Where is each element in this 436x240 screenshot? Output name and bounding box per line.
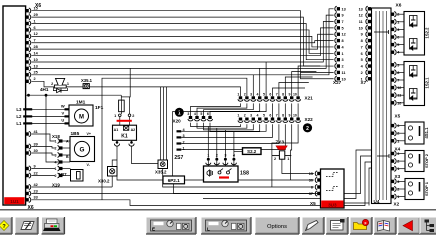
toolbar help button bbox=[0, 217, 12, 234]
switch 1S2.1 bbox=[404, 62, 430, 106]
svg-text:1M1: 1M1 bbox=[76, 100, 86, 106]
switch label S2.2 bbox=[243, 148, 262, 155]
svg-text:5: 5 bbox=[361, 58, 363, 62]
svg-text:Options: Options bbox=[267, 224, 287, 230]
generator 1B5 bbox=[66, 131, 95, 167]
test tap upper in U4 bbox=[374, 30, 389, 34]
svg-text:STOP 2: STOP 2 bbox=[424, 153, 429, 168]
svg-text:1: 1 bbox=[397, 20, 399, 24]
wire triple drop to X35.2 bbox=[161, 87, 167, 160]
svg-text:6: 6 bbox=[269, 92, 271, 96]
svg-text:A2: A2 bbox=[131, 128, 136, 132]
wire 23 long bbox=[32, 156, 387, 194]
svg-text:G: G bbox=[80, 147, 85, 154]
connector X6 pins 42,23,33 bbox=[26, 183, 38, 203]
svg-text:8: 8 bbox=[342, 39, 344, 43]
svg-text:7: 7 bbox=[276, 114, 278, 118]
svg-text:6: 6 bbox=[34, 26, 36, 30]
svg-text:2: 2 bbox=[342, 65, 344, 69]
connector X27 bbox=[333, 6, 346, 85]
toolbar tree button bbox=[420, 217, 436, 234]
svg-text:X6: X6 bbox=[396, 3, 402, 9]
wire X35.1 to X21 pin1 bbox=[89, 87, 240, 96]
marker circled 1 bbox=[175, 108, 184, 117]
svg-text:28: 28 bbox=[34, 45, 38, 49]
toolbar meter button L bbox=[201, 217, 251, 234]
svg-text:2: 2 bbox=[55, 174, 57, 178]
wire X21 to X22 direct bbox=[273, 103, 299, 117]
svg-text:X3: X3 bbox=[395, 174, 401, 179]
svg-text:9: 9 bbox=[289, 114, 291, 118]
svg-text:L1: L1 bbox=[16, 121, 22, 126]
svg-text:E: E bbox=[152, 227, 155, 232]
svg-text:5: 5 bbox=[342, 26, 344, 30]
svg-text:7: 7 bbox=[34, 39, 36, 43]
connector X20 bbox=[173, 112, 213, 123]
toolbar document button bbox=[326, 217, 348, 234]
svg-text:12: 12 bbox=[342, 33, 346, 37]
svg-text:1: 1 bbox=[114, 114, 116, 118]
svg-text:F: F bbox=[364, 221, 366, 225]
control 6P2.1 bbox=[163, 176, 185, 184]
wire X35.2 to pin6 bbox=[163, 169, 314, 188]
svg-text:6: 6 bbox=[269, 114, 271, 118]
svg-text:1S2.2: 1S2.2 bbox=[425, 27, 430, 39]
svg-text:3: 3 bbox=[55, 153, 57, 157]
svg-text:9: 9 bbox=[342, 14, 344, 18]
svg-text:1: 1 bbox=[237, 92, 239, 96]
svg-text:X35.1: X35.1 bbox=[81, 78, 93, 83]
label X3 right bbox=[395, 174, 401, 179]
svg-text:3: 3 bbox=[397, 180, 399, 184]
label X4 right bbox=[395, 147, 401, 152]
svg-text:10: 10 bbox=[359, 26, 363, 30]
wire X18 pin4 feed bbox=[46, 95, 63, 162]
connector X6 right pins lower bbox=[391, 62, 404, 105]
svg-text:3: 3 bbox=[187, 112, 189, 116]
switch STOP 1 bbox=[405, 179, 429, 200]
svg-text:8: 8 bbox=[397, 71, 399, 75]
svg-text:1: 1 bbox=[287, 157, 289, 161]
svg-text:11: 11 bbox=[342, 71, 346, 75]
svg-text:2: 2 bbox=[216, 153, 218, 157]
connector X6 right pins bbox=[391, 12, 404, 55]
svg-text:11: 11 bbox=[359, 20, 363, 24]
svg-text:1: 1 bbox=[67, 82, 69, 86]
svg-text:2: 2 bbox=[132, 114, 134, 118]
terminal L2 bbox=[16, 114, 64, 119]
svg-text:30: 30 bbox=[34, 149, 38, 153]
terminal L1 bbox=[16, 121, 64, 126]
svg-text:4: 4 bbox=[257, 92, 259, 96]
svg-text:1: 1 bbox=[55, 139, 57, 143]
svg-text:12: 12 bbox=[34, 32, 38, 36]
svg-text:3: 3 bbox=[342, 58, 344, 62]
svg-text:8: 8 bbox=[282, 92, 284, 96]
svg-text:X20: X20 bbox=[173, 118, 182, 123]
svg-text:6: 6 bbox=[207, 112, 209, 116]
connector X19 bbox=[32, 166, 71, 187]
label X2 right bbox=[394, 202, 400, 207]
svg-text:1: 1 bbox=[397, 139, 399, 143]
fuse 1F1 bbox=[95, 69, 134, 126]
svg-text:10: 10 bbox=[34, 58, 38, 62]
svg-text:3: 3 bbox=[250, 114, 252, 118]
svg-text:2: 2 bbox=[397, 188, 399, 192]
svg-text:1: 1 bbox=[55, 167, 57, 171]
connector X6 pins 15,29,1,6,12,7,28,14,10,13,25 bbox=[26, 7, 39, 78]
svg-text:29: 29 bbox=[34, 13, 38, 17]
switch 1S2.2 bbox=[404, 12, 430, 56]
wire X22 to 7Y3 bbox=[272, 124, 298, 155]
wire frame left loop bbox=[102, 78, 247, 200]
svg-text:1U1: 1U1 bbox=[10, 199, 19, 204]
svg-text:5: 5 bbox=[263, 114, 265, 118]
svg-text:12: 12 bbox=[397, 86, 401, 90]
wire bottom return bbox=[203, 150, 386, 206]
svg-text:11: 11 bbox=[397, 94, 401, 98]
red live wire mark under 1F1 bbox=[117, 120, 132, 122]
switch STOP 2 bbox=[405, 151, 429, 172]
connector X5 pins 15,30,6,37 bbox=[309, 171, 321, 196]
svg-text:4: 4 bbox=[257, 114, 259, 118]
connector X4 right pins bbox=[391, 151, 405, 171]
svg-text:2: 2 bbox=[34, 77, 36, 81]
svg-text:V+: V+ bbox=[87, 132, 92, 136]
wire X21 to X20 staircase bbox=[173, 103, 267, 176]
wire 33 long bbox=[32, 162, 373, 206]
svg-text:10: 10 bbox=[293, 114, 297, 118]
svg-text:X5: X5 bbox=[395, 114, 401, 119]
svg-text:2: 2 bbox=[244, 92, 246, 96]
svg-text:1: 1 bbox=[397, 195, 399, 199]
svg-text:7Y3: 7Y3 bbox=[276, 140, 285, 146]
svg-text:X4: X4 bbox=[395, 147, 401, 152]
svg-text:6: 6 bbox=[361, 52, 363, 56]
svg-text:1F1: 1F1 bbox=[95, 105, 104, 111]
svg-text:8: 8 bbox=[282, 114, 284, 118]
svg-text:1: 1 bbox=[34, 19, 36, 23]
svg-text:1B5: 1B5 bbox=[71, 131, 80, 137]
svg-text:X5: X5 bbox=[310, 201, 316, 206]
wire bus X6 to X27 staircase bbox=[32, 9, 334, 79]
svg-text:5: 5 bbox=[263, 92, 265, 96]
svg-text:X30.2: X30.2 bbox=[98, 179, 110, 184]
svg-text:M: M bbox=[79, 114, 84, 120]
svg-text:4S1.1: 4S1.1 bbox=[424, 127, 429, 139]
svg-text:7: 7 bbox=[361, 45, 363, 49]
svg-text:2: 2 bbox=[397, 132, 399, 136]
connector X6 pin 2 bbox=[26, 77, 36, 84]
svg-text:2: 2 bbox=[274, 157, 276, 161]
svg-text:X7: X7 bbox=[361, 80, 367, 85]
svg-text:12: 12 bbox=[359, 14, 363, 18]
wire 7Y3 pin2 down bbox=[271, 156, 273, 187]
svg-text:X22: X22 bbox=[305, 117, 314, 122]
svg-text:9: 9 bbox=[397, 63, 399, 67]
svg-text:9: 9 bbox=[289, 92, 291, 96]
connector X6 pins 9,22 bbox=[26, 164, 38, 178]
connector X7 bbox=[359, 6, 371, 85]
svg-text:2: 2 bbox=[55, 146, 57, 150]
switch 2S7 bbox=[174, 128, 185, 161]
svg-text:30: 30 bbox=[309, 179, 313, 183]
label X6 right top bbox=[396, 3, 402, 9]
svg-text:5: 5 bbox=[397, 43, 399, 47]
svg-text:A: A bbox=[66, 140, 69, 144]
connector X18 bbox=[32, 134, 71, 165]
svg-text:22: 22 bbox=[34, 171, 38, 175]
red block 3U3 bbox=[321, 201, 343, 208]
svg-text:3: 3 bbox=[397, 28, 399, 32]
diode of 4H1 bbox=[53, 87, 67, 93]
svg-text:7: 7 bbox=[342, 20, 344, 24]
svg-text:2: 2 bbox=[397, 13, 399, 17]
wire K1 left pin to X5 pin30 bbox=[117, 146, 314, 180]
svg-text:1: 1 bbox=[342, 52, 344, 56]
svg-text:13: 13 bbox=[342, 7, 346, 11]
svg-text:39: 39 bbox=[34, 142, 38, 146]
svg-text:U: U bbox=[61, 118, 64, 123]
svg-text:6: 6 bbox=[397, 36, 399, 40]
svg-text:3U3: 3U3 bbox=[328, 202, 337, 207]
svg-text:6: 6 bbox=[311, 186, 313, 190]
toolbar notes button bbox=[15, 217, 38, 234]
svg-text:3: 3 bbox=[250, 92, 252, 96]
junction unit U4 trunk bbox=[372, 8, 392, 204]
svg-text:15: 15 bbox=[309, 172, 313, 176]
label X6 bottom-left bbox=[28, 205, 34, 211]
svg-text:L: L bbox=[207, 227, 210, 232]
svg-text:37: 37 bbox=[309, 192, 313, 196]
svg-text:X21: X21 bbox=[305, 96, 314, 101]
switch 4S1.1 bbox=[405, 122, 429, 144]
label X5 right bbox=[395, 114, 401, 119]
horn 4H1 bbox=[32, 78, 70, 92]
test tap lower in U4 bbox=[377, 154, 389, 158]
svg-text:S2.2: S2.2 bbox=[247, 149, 257, 154]
svg-text:1: 1 bbox=[397, 167, 399, 171]
svg-text:L2: L2 bbox=[16, 114, 22, 119]
svg-text:1B7: 1B7 bbox=[59, 172, 68, 177]
svg-text:W: W bbox=[61, 104, 65, 109]
connector X35.1 bbox=[66, 78, 92, 89]
unit 3U3 box bbox=[310, 169, 344, 208]
sensor 1B7 bbox=[59, 170, 84, 182]
toolbar options button bbox=[255, 217, 299, 234]
svg-text:13: 13 bbox=[359, 7, 363, 11]
svg-text:4H1: 4H1 bbox=[40, 87, 49, 92]
svg-text:9: 9 bbox=[361, 33, 363, 37]
panel separator line bbox=[0, 209, 436, 211]
svg-text:U4: U4 bbox=[374, 199, 380, 204]
connector X22 bbox=[237, 114, 313, 123]
connector X5 right pins bbox=[391, 123, 405, 143]
svg-text:6P2.1: 6P2.1 bbox=[168, 178, 180, 183]
wire staircase to X21 bbox=[253, 62, 320, 96]
red block 1U1 bbox=[4, 197, 24, 204]
toolbar folder button bbox=[350, 217, 372, 234]
red live mark in 1S8 bbox=[219, 176, 229, 178]
motor 1M1 bbox=[61, 100, 93, 126]
svg-text:10: 10 bbox=[397, 101, 401, 105]
marker circled 2 bbox=[303, 123, 312, 132]
device bar 1U1 (left harness block) bbox=[3, 6, 26, 205]
toolbar back button bbox=[398, 217, 420, 234]
toolbar print button bbox=[42, 217, 65, 234]
svg-text:23: 23 bbox=[34, 189, 38, 193]
svg-text:2: 2 bbox=[244, 114, 246, 118]
wire 7Y3 pin1 to pin30 net bbox=[290, 156, 292, 180]
terminal L3 bbox=[16, 107, 64, 112]
svg-text:2: 2 bbox=[361, 71, 363, 75]
svg-text:33: 33 bbox=[34, 196, 38, 200]
svg-text:4: 4 bbox=[194, 112, 196, 116]
svg-text:41: 41 bbox=[34, 130, 38, 134]
svg-text:15: 15 bbox=[34, 7, 38, 11]
connector X3 right pins bbox=[391, 179, 405, 199]
wire to S2.2 bbox=[234, 151, 243, 153]
svg-text:K1: K1 bbox=[121, 134, 128, 140]
svg-text:3: 3 bbox=[224, 153, 226, 157]
svg-text:9: 9 bbox=[34, 164, 36, 168]
relay K1 bbox=[113, 125, 137, 146]
svg-text:V: V bbox=[61, 111, 64, 116]
svg-text:X18: X18 bbox=[52, 134, 60, 139]
svg-text:B: B bbox=[66, 155, 69, 159]
svg-text:2: 2 bbox=[397, 160, 399, 164]
svg-text:4: 4 bbox=[55, 160, 57, 164]
wire 6P2.1 to X5 pin37 bbox=[174, 184, 314, 194]
svg-text:3: 3 bbox=[397, 152, 399, 156]
wire 7Y3 coil to X5 pin15 bbox=[282, 159, 314, 173]
label X6 top-left bbox=[35, 3, 41, 9]
svg-text:X2: X2 bbox=[394, 202, 400, 207]
svg-text:A1: A1 bbox=[114, 128, 119, 132]
connector X21 bbox=[237, 92, 313, 101]
svg-text:STOP 1: STOP 1 bbox=[424, 181, 429, 196]
svg-text:2S7: 2S7 bbox=[174, 155, 183, 161]
connector X35.2 bbox=[155, 160, 168, 175]
toolbar pencil button bbox=[302, 217, 324, 234]
svg-text:42: 42 bbox=[34, 183, 38, 187]
connector X6 pins 41,39,30 bbox=[26, 130, 38, 156]
svg-text:L3: L3 bbox=[16, 107, 22, 112]
svg-text:X27: X27 bbox=[333, 80, 342, 85]
svg-text:13: 13 bbox=[34, 64, 38, 68]
svg-text:5: 5 bbox=[200, 112, 202, 116]
switch unit 1S8 bbox=[204, 166, 250, 182]
svg-text:2: 2 bbox=[306, 126, 309, 132]
wire node row y94 with junctions bbox=[26, 94, 122, 97]
svg-text:25: 25 bbox=[34, 71, 38, 75]
svg-text:1: 1 bbox=[207, 153, 209, 157]
connector X30.2 bbox=[98, 160, 117, 187]
svg-text:3: 3 bbox=[397, 124, 399, 128]
toolbar catalog button bbox=[374, 217, 396, 234]
wire X22 to 2S7 pins bbox=[181, 124, 285, 149]
wire 3U3 to trunk bbox=[344, 202, 370, 204]
svg-text:1S2.1: 1S2.1 bbox=[425, 77, 430, 89]
valve 7Y3 bbox=[272, 140, 291, 162]
wire X20 X22 to 1S8 pins bbox=[191, 123, 260, 158]
svg-text:7: 7 bbox=[397, 79, 399, 83]
connector pins of 1S8 bbox=[206, 153, 237, 166]
svg-text:2: 2 bbox=[51, 82, 53, 86]
svg-text:8: 8 bbox=[361, 39, 363, 43]
svg-text:X35.2: X35.2 bbox=[155, 170, 167, 175]
svg-text:7: 7 bbox=[276, 92, 278, 96]
wire K1 right pin to X35.2 bbox=[132, 146, 159, 164]
svg-text:1: 1 bbox=[237, 114, 239, 118]
svg-text:10: 10 bbox=[342, 77, 346, 81]
wire 42 bbox=[32, 186, 113, 188]
svg-text:1S8: 1S8 bbox=[240, 171, 249, 177]
toolbar meter button E bbox=[146, 217, 196, 234]
svg-text:10: 10 bbox=[293, 92, 297, 96]
